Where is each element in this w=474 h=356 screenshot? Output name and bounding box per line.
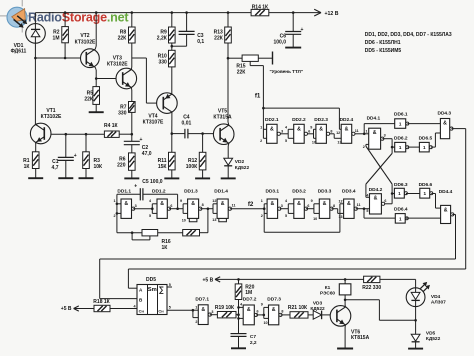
wire DD2.4 out: [355, 133, 364, 135]
svg-text:2,2: 2,2: [250, 340, 257, 346]
+5V arrow left: [74, 306, 79, 311]
label R13 22К: [214, 30, 224, 42]
ground under R3: [79, 177, 94, 179]
label R22 330: [362, 285, 381, 291]
wire DD3.1 out: [280, 208, 289, 210]
pins DD3.3: [311, 199, 335, 221]
gate DD3.1: [267, 199, 281, 218]
label R18 1К: [93, 299, 110, 305]
wire R2 bottom: [64, 43, 66, 58]
svg-text:6: 6: [384, 199, 386, 203]
label R9 2,2К: [157, 30, 168, 42]
junction feedback-DD1.4in: [207, 207, 210, 210]
wire R5 top: [95, 79, 97, 87]
resistor R10: [169, 50, 176, 67]
svg-text:5: 5: [285, 139, 287, 143]
svg-text:330: 330: [158, 59, 167, 65]
ground under C7: [231, 347, 246, 349]
wire node to DD4.1 pin1: [364, 133, 369, 135]
svg-text:DD5: DD5: [146, 277, 156, 283]
svg-text:&: &: [443, 121, 447, 127]
svg-text:2: 2: [113, 214, 115, 218]
wire VT3collector node to VT4 base: [132, 58, 157, 103]
resistor R12: [199, 152, 206, 170]
transistor VT3: [116, 68, 137, 89]
wire VT1 base line: [51, 133, 104, 135]
logo RadioStorage icon: [7, 7, 27, 27]
svg-text:1М: 1М: [53, 36, 60, 42]
wire DD6.1 out to DD4.3: [407, 123, 440, 125]
junction C5-DD1.2out: [176, 207, 179, 210]
ground under R1: [28, 177, 43, 179]
label R2 1М: [53, 30, 60, 42]
wire R9 top: [171, 13, 173, 27]
wire VT4 collector down: [171, 112, 173, 134]
label C6 100,0: [273, 33, 286, 45]
svg-text:330: 330: [118, 110, 127, 116]
ground under R5: [89, 111, 104, 113]
gate DD4.2: [370, 194, 385, 214]
wire R11 top: [171, 134, 173, 153]
wire DD3.3 out to DD3.4 pin13: [331, 209, 343, 214]
svg-text:&: &: [124, 201, 128, 207]
ground under VD5: [408, 348, 423, 350]
pins DD3.2: [285, 199, 309, 218]
label R14 1К: [252, 5, 269, 11]
svg-text:&: &: [373, 130, 377, 136]
tie DD3.3 inputs: [314, 204, 319, 214]
svg-text:КТ815А: КТ815А: [351, 335, 370, 341]
label DD7.3: [267, 297, 281, 303]
gate DD1.2: [157, 199, 171, 218]
wire VT2 collector: [95, 13, 96, 50]
svg-text:&: &: [345, 126, 349, 132]
resistor R19: [217, 312, 236, 318]
label R20 1М: [245, 284, 254, 296]
label DD3.2: [292, 189, 306, 195]
ground under R6: [124, 177, 139, 179]
resistor R14: [251, 9, 269, 15]
svg-text:3: 3: [211, 310, 213, 314]
label DD3.4: [342, 189, 356, 195]
svg-text:Cн: Cн: [139, 309, 145, 314]
resistor R3: [83, 134, 90, 178]
label VT1 КТ3102Е: [41, 108, 62, 120]
svg-text:DD3.2: DD3.2: [292, 189, 306, 195]
hook under DD1.3: [189, 218, 197, 221]
svg-text:Cн: Cн: [158, 309, 164, 314]
svg-text:&: &: [444, 207, 448, 213]
resistor R20: [235, 284, 242, 300]
svg-text:DD6.6: DD6.6: [419, 182, 433, 188]
+5V arrow mid: [215, 277, 220, 282]
junction DD1.2 in: [151, 207, 154, 210]
svg-text:&: &: [374, 196, 378, 202]
svg-text:КД522: КД522: [235, 165, 250, 171]
wire DD6.4 out to DD4.4: [406, 217, 441, 219]
resistor R7: [129, 102, 136, 113]
wire DD4.4 out bus1: [100, 215, 456, 299]
svg-text:DD7.2: DD7.2: [243, 297, 257, 303]
junction VT4 collector/C4/R11: [171, 132, 174, 135]
junction rail-C3: [185, 11, 188, 14]
gate DD7.2: [243, 305, 257, 325]
label DD6.3: [394, 182, 408, 188]
svg-text:R4 1К: R4 1К: [104, 123, 119, 129]
tie DD7.3 inputs: [263, 307, 269, 318]
wire VT6 emitter: [344, 325, 346, 349]
wire R8 top: [131, 13, 133, 27]
tie DD7.2 inputs: [237, 300, 243, 334]
svg-text:DD6.2: DD6.2: [394, 135, 408, 141]
label DD4.3: [437, 111, 451, 117]
svg-text:+: +: [140, 137, 143, 143]
wire DD3.4 out: [356, 208, 370, 210]
svg-text:10: 10: [263, 321, 267, 325]
svg-text:10К: 10К: [94, 164, 104, 170]
svg-text:КД522: КД522: [426, 336, 441, 342]
wire f1 to DD2 inputs: [263, 108, 266, 138]
wire DD3 feedback: [264, 204, 343, 233]
label R3 10К: [94, 158, 104, 170]
svg-text:+: +: [134, 183, 137, 189]
svg-text:КТ3102Е: КТ3102Е: [107, 61, 128, 67]
svg-text:15К: 15К: [158, 164, 168, 170]
pins DD2.1: [260, 125, 283, 143]
label DD2.3: [314, 117, 328, 123]
label DD5: [146, 277, 156, 283]
resistor R5: [93, 87, 100, 105]
label R21 10К: [288, 305, 308, 311]
gate DD2.4: [341, 124, 355, 143]
svg-text:&: &: [272, 307, 276, 313]
wire +5V line: [215, 278, 364, 280]
svg-text:11: 11: [355, 129, 359, 133]
label VT6 КТ815А: [351, 330, 370, 342]
svg-text:2: 2: [195, 320, 197, 324]
wire VT2 emitter: [95, 67, 96, 79]
svg-text:C5 100,0: C5 100,0: [142, 179, 163, 185]
inverter DD6.3: [394, 188, 407, 198]
capacitor C5 wire left: [117, 193, 140, 195]
label +5 В (mid): [203, 277, 214, 283]
wire to DD6.3: [392, 193, 394, 195]
label +12 В: [325, 11, 339, 17]
label R7 330: [118, 104, 127, 116]
svg-text:1: 1: [113, 199, 115, 203]
wire C4 left: [172, 133, 185, 135]
label R1 1К: [23, 158, 30, 170]
transistor VT1: [30, 123, 51, 144]
junction VT6 collector branch: [344, 299, 347, 302]
junction R2-base wire: [64, 57, 67, 60]
label f2: [248, 201, 254, 208]
svg-text:13: 13: [338, 215, 342, 219]
label R5 22К: [84, 90, 94, 102]
wire VT3 emitter to R7: [130, 87, 133, 101]
wire VD1 to node: [34, 43, 36, 58]
transistor VT2: [81, 49, 100, 68]
svg-text:АЛ307: АЛ307: [431, 299, 446, 305]
label R10 330: [158, 53, 167, 65]
svg-text:&: &: [297, 201, 301, 207]
svg-text:100К: 100К: [186, 164, 198, 170]
svg-text:5: 5: [169, 306, 171, 310]
junction DD4.1out-DD6.2: [391, 146, 394, 149]
svg-text:220: 220: [117, 162, 126, 168]
svg-text:+5 В: +5 В: [203, 277, 214, 283]
label R6 220: [117, 156, 126, 168]
node VD1/R2/VT2 base wire: [35, 57, 80, 59]
wire DD2.3 out to DD2.4 pin13: [330, 134, 342, 139]
svg-text:13: 13: [212, 218, 216, 222]
resistor R6: [129, 153, 136, 170]
wire VD1 top: [34, 13, 36, 24]
pins DD7.3: [261, 303, 284, 325]
pins DD5: [134, 283, 171, 310]
wire VT5 emitter to VD2: [227, 143, 230, 158]
transistor VT5: [213, 124, 234, 145]
wire R13 bottom: [227, 43, 229, 58]
label C1 4,7: [52, 159, 59, 171]
svg-text:12: 12: [336, 131, 340, 135]
svg-text:1К: 1К: [162, 245, 169, 251]
label VD1 ФД611: [11, 43, 27, 55]
+12V arrow terminal: [314, 9, 321, 16]
svg-text:DD7.1: DD7.1: [195, 297, 209, 303]
svg-text:&: &: [221, 201, 225, 207]
label VT2 КТ3102Е: [75, 33, 96, 45]
label VT5 КТ315А: [213, 109, 232, 121]
photodiode VD1: [26, 24, 46, 44]
resistor R11: [169, 152, 176, 170]
gate DD4.1: [369, 128, 384, 149]
wire R6 bottom: [131, 170, 133, 178]
label VD2 КД522: [235, 159, 250, 171]
svg-text:1: 1: [398, 191, 401, 196]
svg-text:DD3.1: DD3.1: [265, 189, 279, 195]
pins DD7.1: [195, 306, 213, 324]
resistor R21: [290, 312, 308, 318]
junction base-R3: [85, 133, 88, 136]
svg-text:DD1, DD2, DD3, DD4, DD7 - К155: DD1, DD2, DD3, DD4, DD7 - К155ЛА3: [365, 32, 452, 38]
svg-text:0,1: 0,1: [197, 39, 204, 45]
svg-text:2,2К: 2,2К: [157, 36, 168, 42]
wire DD1.2 out: [169, 208, 183, 210]
pins DD2.3: [310, 125, 332, 144]
tie DD1.3 inputs: [183, 204, 188, 214]
svg-text:DD4.3: DD4.3: [437, 111, 451, 117]
svg-text:22К: 22К: [118, 36, 128, 42]
label DD4.4: [439, 189, 453, 195]
wire R15 to TTL terminal: [258, 57, 272, 59]
svg-text:47,0: 47,0: [142, 151, 152, 157]
resistor R22: [364, 276, 380, 282]
tie DD7.1 inputs: [192, 309, 199, 318]
svg-text:1: 1: [366, 130, 368, 134]
svg-text:КТ315А: КТ315А: [213, 115, 232, 121]
svg-text:&: &: [297, 126, 301, 132]
svg-text:+: +: [301, 27, 304, 33]
logo text RadioStorage.net: [28, 10, 129, 24]
label R8 22К: [118, 30, 128, 42]
wire R9 bottom: [171, 43, 173, 50]
svg-text:VD5: VD5: [426, 330, 436, 336]
svg-text:8: 8: [281, 309, 283, 313]
wire VT1 collector: [34, 123, 36, 126]
label DD1.3: [184, 189, 198, 195]
resistor R1: [32, 152, 39, 169]
wire DD7.3 out: [281, 314, 291, 316]
wire DD7.2 out: [256, 314, 264, 316]
wire R21 to VD3: [308, 314, 313, 316]
svg-text:0,01: 0,01: [182, 121, 192, 127]
junction base-C1: [65, 133, 68, 136]
svg-text:3: 3: [384, 133, 386, 137]
svg-text:DD7.3: DD7.3: [267, 297, 281, 303]
gate DD4.4: [441, 205, 454, 223]
wire node up to DD6.1: [364, 124, 395, 134]
resistor R8: [129, 27, 136, 43]
junction rail-C6: [292, 11, 295, 14]
label C2 47,0: [142, 145, 152, 157]
inverter DD6.1: [395, 119, 409, 129]
pins DD4.2: [366, 194, 386, 213]
label R4 1К: [104, 123, 119, 129]
wire VD3 to VT6 base: [322, 314, 331, 316]
wire node down to DD6.4: [364, 209, 395, 218]
svg-text:DD2.2: DD2.2: [292, 117, 306, 123]
svg-text:К1: К1: [325, 285, 331, 290]
pins DD1.2: [149, 199, 173, 218]
svg-text:DD4.2: DD4.2: [369, 187, 383, 193]
wire cross B (DD4.1out to DD4.2 in): [366, 153, 392, 197]
wire +12V rail: [35, 12, 321, 14]
wire cross A (DD4.2out to DD4.1 pin2): [366, 146, 392, 204]
svg-text:22К: 22К: [237, 70, 247, 76]
gate DD7.1: [198, 305, 211, 325]
junction LED-VT6 branch: [414, 319, 417, 322]
wire to R15: [228, 57, 242, 59]
svg-text:DD1.1: DD1.1: [117, 189, 131, 195]
svg-text:1: 1: [423, 191, 426, 196]
resistor R15 (trimmer): [242, 55, 258, 61]
svg-text:DD6.1: DD6.1: [394, 112, 408, 118]
svg-text:&: &: [319, 126, 323, 132]
resistor R2: [62, 27, 69, 43]
wire DD2.2 out: [308, 133, 314, 135]
svg-text:1: 1: [261, 199, 263, 203]
ground under R12: [195, 177, 210, 179]
label DD4.1: [367, 116, 381, 122]
label DD6.1: [394, 112, 408, 118]
gate DD2.3: [316, 124, 330, 143]
wire f1 feedback to DD2.4 pin12: [263, 108, 341, 129]
label R12 100К: [186, 158, 198, 170]
wire to DD6.2: [392, 146, 395, 148]
svg-text:9: 9: [180, 199, 182, 203]
junction rail-R8: [131, 11, 134, 14]
tie DD3.1 inputs: [263, 204, 267, 233]
svg-text:DD6.4: DD6.4: [394, 207, 408, 213]
inverter DD6.2: [395, 142, 409, 152]
diode VD5: [411, 334, 420, 342]
svg-text:R18 1К: R18 1К: [93, 299, 110, 305]
wire DD6.2 out: [407, 146, 419, 148]
capacitor C7: [231, 334, 247, 349]
wire R2 top: [64, 13, 66, 27]
terminal Уровень ТТЛ: [272, 52, 274, 65]
gate DD1.4: [217, 199, 231, 218]
diode VD3: [313, 311, 321, 320]
tie DD2.3 inputs: [314, 129, 316, 138]
svg-text:100,0: 100,0: [273, 39, 286, 45]
svg-text:&: &: [160, 201, 164, 207]
capacitor C4: [185, 129, 188, 139]
svg-text:10: 10: [313, 217, 317, 221]
pins DD2.4: [336, 129, 359, 145]
svg-text:DD6.5: DD6.5: [419, 135, 433, 141]
junction VT2 emitter node: [95, 77, 98, 80]
wire R15 tap to f1: [250, 61, 263, 108]
label R16 1К: [162, 239, 171, 251]
resistor R4: [104, 131, 119, 137]
svg-text:10: 10: [312, 141, 316, 145]
wire R4 to node: [119, 133, 132, 135]
svg-text:8: 8: [202, 203, 204, 207]
label DD6.4: [394, 207, 408, 213]
wire DD4.3 out bus2: [128, 129, 465, 289]
wire R22 to VD4: [380, 279, 416, 288]
wire VT5 collector up: [227, 58, 230, 125]
svg-text:9: 9: [311, 199, 313, 203]
svg-text:3: 3: [281, 129, 283, 133]
resistor R18: [94, 305, 110, 311]
junction rail-R2: [64, 11, 67, 14]
wire DD6.5 out to DD4.3: [431, 133, 441, 147]
svg-text:8: 8: [333, 204, 335, 208]
wire DD4.1 out: [382, 139, 392, 154]
wire DD6.3 out: [406, 193, 420, 195]
pins DD1.4: [212, 199, 235, 222]
gate DD1.1: [121, 199, 135, 218]
capacitor C5: [134, 183, 143, 200]
pins DD1.1: [113, 199, 136, 218]
ground under C6: [285, 47, 301, 49]
label R15 22К: [236, 64, 246, 76]
ground under R11: [164, 177, 179, 179]
svg-text:12: 12: [212, 199, 216, 203]
gate DD3.3: [319, 199, 333, 218]
stub DD5 sum output: [167, 286, 172, 288]
wire DD5 carry out to DD7.1: [167, 309, 193, 311]
label VT4 КТ3107Е: [143, 114, 164, 126]
capacitor C6: [285, 13, 303, 48]
tie DD1.4 inputs: [213, 204, 217, 214]
svg-text:+12 В: +12 В: [325, 11, 339, 17]
label R11 15К: [158, 158, 168, 170]
svg-text:DD6.3: DD6.3: [394, 182, 408, 188]
diode VD2: [224, 158, 233, 166]
svg-text:&: &: [191, 201, 195, 207]
svg-text:1М: 1М: [245, 290, 252, 296]
wire R10 to VT4 emitter: [171, 67, 173, 94]
label DD7.2: [243, 297, 257, 303]
svg-text:2: 2: [260, 139, 262, 143]
potentiometer R16: [142, 230, 158, 236]
svg-text:DD1.4: DD1.4: [214, 189, 228, 195]
junction rail-VT2: [95, 11, 98, 14]
